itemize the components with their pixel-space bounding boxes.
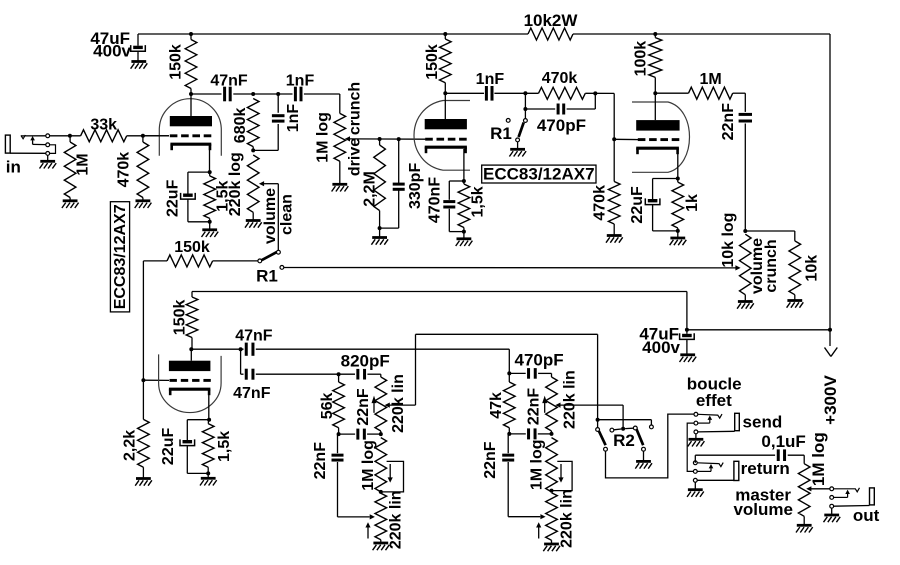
label R1 (upper) [490, 124, 512, 143]
node B+ rail / 150k V1b plate resistor [443, 32, 447, 36]
svg-text:470pF: 470pF [537, 116, 586, 135]
node B+ rail / 150k V1a plate resistor [189, 32, 193, 36]
resistor 470k (V3a grid leak) [592, 139, 620, 234]
node V2a plate [189, 347, 193, 351]
capacitor 0,1uF [761, 432, 805, 461]
node V3a cathode [676, 177, 680, 181]
svg-text:47nF: 47nF [235, 328, 273, 345]
svg-text:470pF: 470pF [515, 351, 564, 370]
tube V1b envelope [414, 101, 470, 171]
tube V1a grid [145, 134, 211, 137]
node right edge / 47uF filter feed [828, 328, 832, 332]
svg-text:return: return [741, 459, 790, 478]
wire in jack to 1M [50, 135, 81, 137]
resistor 150k (V1a plate) [167, 34, 197, 94]
node 47k bottom [507, 432, 511, 436]
wire stack1 wiper to R2 [416, 333, 598, 335]
label volume (crunch) [749, 238, 766, 294]
resistor 680k [232, 99, 259, 151]
label crunch (pot) [763, 239, 780, 292]
resistor 1,5k (V2a cathode) [202, 420, 233, 474]
wire send-return normalling [687, 423, 694, 471]
svg-text:56k: 56k [319, 392, 336, 419]
wiper master volume [806, 486, 830, 491]
svg-text:effet: effet [696, 391, 732, 410]
svg-text:send: send [743, 413, 783, 432]
node 470k input [141, 134, 145, 138]
label volume (clean) [262, 188, 279, 244]
svg-text:1k: 1k [684, 194, 701, 212]
resistor 33k [81, 117, 127, 142]
node 47k top [507, 371, 511, 375]
potentiometer 1M log (drive crunch) [315, 94, 346, 183]
resistor 1M (input) [64, 136, 91, 201]
node 2,2M top [378, 137, 382, 141]
switch R1 (upper) blade [519, 111, 526, 138]
wire 47uF node to +300V [687, 329, 830, 331]
potentiometer 1M log (master volume) [798, 432, 827, 524]
wire V3a plate to 1M [655, 92, 688, 94]
node B+ rail / 100k V3a plate resistor [653, 32, 657, 36]
svg-text:1,5k: 1,5k [470, 186, 487, 217]
capacitor 22uF (V2a cathode) [160, 428, 208, 474]
resistor 1,5k (V1a cathode) [204, 172, 232, 222]
svg-text:22nF: 22nF [526, 388, 543, 426]
label R1 (lower) [256, 267, 278, 286]
tube V1a plate [170, 94, 212, 126]
switch R2 blade left [599, 431, 606, 445]
svg-text:10k2W: 10k2W [524, 11, 579, 30]
capacitor 47uF 400v (input filter) [90, 29, 145, 61]
ground (stack2 bass) [543, 544, 560, 551]
wire B+ feed drop [686, 292, 688, 330]
svg-text:150k: 150k [424, 44, 441, 80]
svg-text:22nF: 22nF [482, 441, 499, 479]
node V1b plate [443, 91, 447, 95]
svg-text:drive: drive [347, 138, 364, 176]
svg-text:1nF: 1nF [476, 71, 505, 88]
svg-text:1M: 1M [75, 153, 92, 175]
tube V3a cathode [636, 148, 679, 178]
capacitor 1nF (V1b coupling) [476, 71, 505, 100]
wire bottom 47nF to stack1 [256, 373, 339, 375]
label drive [347, 138, 364, 176]
resistor 150k (switch feed) [167, 239, 213, 267]
resistor 2,2M [362, 139, 386, 228]
tube V3a plate [636, 93, 679, 130]
jack return plug body [697, 461, 739, 480]
label +300V [821, 375, 840, 425]
jack out plug body [834, 488, 875, 506]
node V3a grid [612, 137, 616, 141]
node R2 center feed [621, 427, 625, 431]
ground (2,2k) [135, 479, 152, 486]
capacitor 22nF (stack2 mid) [526, 388, 543, 440]
ground (volume clean) [245, 221, 262, 228]
label volume (master) [733, 500, 793, 519]
svg-text:220k lin: 220k lin [390, 374, 407, 433]
potentiometer 220k lin (stack1 bass) [375, 490, 405, 549]
resistor 470k (input) [115, 136, 148, 201]
potentiometer 10k log (volume crunch) [720, 213, 751, 301]
svg-text:150k: 150k [171, 300, 188, 336]
wire R2 upper link [598, 420, 652, 425]
wire V1b cathode to 470nF [449, 181, 464, 200]
wire stack2 mid row [509, 433, 551, 435]
wire R2 output to send [606, 414, 694, 478]
tube V3a envelope [632, 102, 690, 172]
label ECC83/12AX7 (left box) [110, 202, 129, 312]
capacitor 47nF (stack1 feed) [233, 349, 271, 402]
potentiometer 220k log (volume clean) [227, 152, 259, 219]
tube V1b cathode [425, 147, 467, 181]
ground (R2) [635, 451, 652, 468]
resistor 1k (V3a cathode) [672, 179, 701, 231]
resistor 150k (V2a plate) [171, 292, 198, 350]
svg-text:820pF: 820pF [341, 352, 390, 371]
svg-text:470nF: 470nF [427, 177, 444, 223]
tube V2a plate [169, 349, 211, 371]
node V1b cathode [462, 179, 466, 183]
node V1a plate [189, 92, 193, 96]
capacitor 470pF (bypass) [525, 93, 595, 135]
wire crunch pot to 10k [745, 230, 795, 232]
wiper tie arrow stack1 treble [372, 396, 377, 413]
jack send contacts [694, 412, 698, 433]
capacitor 47nF (stack2 feed) [235, 328, 273, 356]
node V1a cathode bottom [208, 220, 212, 224]
ground (10k divider) [787, 301, 804, 308]
node V1a cathode [208, 170, 212, 174]
svg-text:330pF: 330pF [407, 163, 424, 209]
jack out tip spring [834, 488, 860, 498]
svg-text:220k lin: 220k lin [558, 489, 575, 548]
svg-text:ECC83/12AX7: ECC83/12AX7 [483, 165, 595, 184]
wiper volume clean [259, 181, 278, 250]
tube V1b grid [425, 138, 467, 141]
capacitor 22nF (stack2 bass) [482, 434, 540, 517]
ground (V1b cathode) [456, 232, 473, 246]
switch R2 blade right [637, 429, 644, 445]
node volume crunch top [743, 229, 747, 233]
ground (send jack) [688, 434, 705, 447]
jack send tip spring [698, 414, 722, 423]
ground (master volume) [796, 525, 813, 532]
svg-text:in: in [6, 158, 21, 177]
jack in ring-sleeve tie [50, 145, 56, 154]
svg-text:22uF: 22uF [160, 428, 177, 466]
ground (out jack) [824, 508, 841, 522]
wire stack1 mid row [339, 433, 381, 435]
node V1b cathode bottom [462, 230, 466, 234]
wire B+ top rail left segment [138, 33, 528, 35]
capacitor 22nF (stack1 mid) [355, 388, 372, 439]
wiper tie arrow stack1 bass [365, 522, 370, 538]
label crunch [347, 82, 364, 135]
node 1nF bypass top [276, 92, 280, 96]
resistor 150k (V1b plate) [424, 34, 451, 93]
label R2 [613, 431, 635, 450]
wire top 47nF to stack2 [256, 349, 509, 373]
node 470k right [593, 91, 597, 95]
svg-text:400v: 400v [93, 42, 131, 61]
node 470k left [523, 91, 527, 95]
jack in tip spring [21, 135, 46, 145]
tube V1b plate [425, 93, 467, 129]
potentiometer 220k lin (stack1 treble) [375, 374, 407, 434]
svg-text:1,5k: 1,5k [216, 431, 233, 462]
capacitor 22uF (V1a cathode) [165, 179, 210, 221]
capacitor 22uF (V3a cathode) [629, 186, 678, 231]
node 2,2M bottom [378, 226, 382, 230]
label clean [279, 194, 296, 235]
wire 470k right [585, 92, 614, 94]
capacitor 1nF (clean bright) [286, 73, 315, 102]
ground (2,2M) [371, 228, 388, 245]
wiper 220k lin stack1 [385, 334, 416, 407]
svg-text:1nF: 1nF [285, 104, 302, 133]
resistor 2,2k (V2a grid leak) [122, 380, 150, 477]
tube V2a cathode [169, 389, 211, 420]
potentiometer 220k lin (stack2 treble) [546, 370, 579, 434]
node 47nF split [239, 347, 243, 351]
svg-text:volume: volume [733, 500, 793, 519]
ground (volume crunch) [737, 302, 754, 309]
svg-text:10k: 10k [804, 255, 821, 282]
wire R2 center stubs [614, 428, 633, 430]
node V3a plate [653, 91, 657, 95]
wire V2a grid lead [143, 379, 169, 381]
resistor 1M (V3a output) [689, 71, 733, 99]
svg-text:470k: 470k [592, 185, 609, 221]
node 56k top [337, 372, 341, 376]
jack in (plug body) [5, 135, 45, 153]
svg-text:out: out [853, 506, 880, 525]
node 330pF top [397, 137, 401, 141]
svg-text:1M log: 1M log [360, 440, 377, 491]
wire V1b plate to 1nF [445, 92, 484, 94]
svg-text:47nF: 47nF [233, 385, 271, 402]
wire V1a plate row [191, 93, 340, 95]
svg-text:47nF: 47nF [210, 73, 248, 90]
svg-text:clean: clean [279, 194, 296, 235]
svg-text:1nF: 1nF [286, 73, 315, 90]
svg-text:680k: 680k [232, 108, 249, 144]
capacitor 47nF (V1a coupling) [210, 73, 248, 102]
svg-text:47k: 47k [488, 392, 505, 419]
ground (V2a cathode) [200, 473, 217, 485]
wiper 220k lin stack2 bass [540, 514, 545, 519]
wire stack1 net drop to R2 [597, 334, 599, 419]
switch R1 (lower) blade [262, 252, 277, 260]
wire V3a cathode to 22uF [653, 179, 678, 200]
node V2a grid [141, 378, 145, 382]
label boucle [687, 375, 742, 394]
svg-text:22nF: 22nF [355, 388, 372, 426]
label return [741, 459, 790, 478]
svg-text:R1: R1 [256, 267, 278, 286]
capacitor 330pF [380, 139, 424, 228]
wire B+ top rail right segment [573, 33, 830, 35]
svg-text:1M log: 1M log [528, 439, 545, 490]
label in [6, 158, 21, 177]
label effet [696, 391, 732, 410]
node input 1M [68, 134, 72, 138]
svg-text:22nF: 22nF [312, 442, 329, 480]
resistor 10k (crunch divider) [789, 231, 821, 300]
ground (stack1 bass) [373, 543, 390, 550]
svg-text:R1: R1 [490, 124, 512, 143]
wire 150k to R1 [213, 260, 258, 262]
wiper 1M log stack2 [553, 461, 572, 490]
ground (V1a cathode) [202, 222, 219, 237]
ground (V3a cathode) [670, 231, 687, 245]
svg-text:220k lin: 220k lin [388, 490, 405, 549]
jack return contacts [693, 461, 697, 482]
svg-text:22nF: 22nF [720, 103, 737, 141]
resistor 100k (V3a plate) [633, 34, 662, 93]
wire V1a cathode to 22uF [188, 172, 210, 193]
wire V2a cathode to 22uF [187, 420, 209, 440]
svg-text:220k log: 220k log [227, 152, 244, 216]
ground (in jack) [40, 155, 57, 168]
wiper tie arrow stack2 bass [536, 522, 541, 538]
tube V3a grid [638, 138, 680, 141]
svg-text:470k: 470k [542, 70, 578, 87]
capacitor 47uF 400v (second filter) [639, 324, 694, 357]
node stack2 bass top [550, 489, 554, 493]
switch R1 (lower) contacts [258, 250, 284, 269]
wire +300V right edge vertical [829, 34, 831, 346]
svg-text:crunch: crunch [763, 239, 780, 292]
wire return to 0,1uF [695, 455, 775, 463]
ground (1M input) [62, 201, 79, 208]
switch R1 (upper) contacts [506, 119, 527, 142]
svg-text:33k: 33k [90, 117, 117, 134]
svg-text:1M log: 1M log [315, 112, 332, 163]
tube V1a cathode [170, 144, 211, 172]
wiper 220k lin stack2 [555, 403, 623, 428]
wire 33k to grid node [127, 135, 169, 137]
ground (return jack) [687, 482, 704, 497]
label master [735, 486, 791, 505]
svg-text:22uF: 22uF [165, 179, 182, 217]
svg-text:400v: 400v [642, 338, 680, 357]
svg-text:150k: 150k [174, 239, 210, 256]
label send [743, 413, 783, 432]
node volume clean top [251, 148, 255, 152]
jack send plug body [698, 413, 739, 432]
label out [853, 506, 880, 525]
tube V1a envelope [159, 99, 221, 156]
svg-text:2,2M: 2,2M [362, 171, 379, 207]
node R2 feed [596, 418, 600, 422]
svg-text:1M log: 1M log [809, 432, 828, 486]
jack return tip spring [697, 463, 723, 472]
wiper tie arrow stack2 treble [542, 396, 547, 413]
svg-text:470k: 470k [115, 152, 132, 188]
svg-text:1M: 1M [699, 71, 721, 88]
resistor 56k [319, 374, 344, 434]
node 680k top [251, 92, 255, 96]
node stack2 mid [550, 432, 554, 436]
potentiometer 1M log (stack1) [360, 438, 386, 492]
capacitor 1nF (volume bypass) [253, 94, 302, 150]
wiper drive crunch [345, 136, 426, 141]
wire V2a plate row [191, 348, 243, 350]
capacitor 470nF (V1b cathode) [427, 177, 464, 232]
svg-text:ECC83/12AX7: ECC83/12AX7 [112, 204, 129, 309]
wiper 220k lin stack1 bass [370, 514, 375, 519]
node 47uF lower [685, 328, 689, 332]
tube V2a grid [170, 379, 211, 382]
svg-text:2,2k: 2,2k [122, 430, 139, 461]
ground (V3a grid leak) [606, 236, 623, 243]
ground (470k input) [135, 201, 152, 208]
svg-text:22uF: 22uF [629, 186, 646, 224]
label ECC83/12AX7 (top box) [482, 165, 596, 184]
potentiometer 220k lin (stack2 bass) [546, 489, 576, 548]
svg-text:0,1uF: 0,1uF [761, 432, 805, 451]
svg-text:10k log: 10k log [720, 213, 737, 268]
wire switch to V2a grid [142, 261, 144, 380]
resistor 47k [488, 373, 515, 434]
node stack1 bass top [379, 490, 383, 494]
node V2a cathode [207, 418, 211, 422]
wire V2a B+ feed [192, 291, 687, 293]
capacitor 22nF (V3a coupling) [720, 93, 752, 231]
wire 1nF to 470k [494, 92, 538, 94]
svg-text:100k: 100k [633, 41, 650, 77]
resistor 10k2W [524, 11, 579, 40]
wiper 1M log stack1 [382, 461, 404, 492]
capacitor 470pF (stack2) [509, 351, 563, 379]
wire 470k to V3a grid [614, 93, 639, 139]
svg-text:+300V: +300V [821, 375, 840, 425]
svg-text:R2: R2 [613, 431, 635, 450]
node 56k bottom [337, 432, 341, 436]
node R1 upper tap [523, 107, 527, 111]
wire channel switch feed [143, 260, 167, 262]
node stack1 mid [379, 432, 383, 436]
svg-text:220k lin: 220k lin [562, 370, 579, 429]
ground (R1 upper) [509, 142, 526, 157]
wire R2 left contact stub [597, 420, 599, 428]
jack out contacts [830, 487, 834, 508]
node V3a cathode bottom [676, 229, 680, 233]
ground (47uF input filter) [131, 62, 148, 69]
resistor 470k (interstage) [539, 70, 586, 99]
resistor 1,5k (V1b cathode) [458, 181, 486, 232]
potentiometer 1M log (stack2) [528, 438, 557, 492]
capacitor 820pF [339, 352, 390, 380]
jack in contacts [46, 134, 50, 155]
ground (47uF second filter) [680, 355, 697, 362]
svg-text:volume: volume [262, 188, 279, 244]
switch R2 contacts [596, 425, 654, 451]
capacitor 22nF (stack1 bass) [312, 434, 370, 517]
tube V2a envelope [159, 354, 222, 412]
wire R1 to volume crunch wiper [284, 267, 736, 269]
wire 0,1uF to master pot [788, 455, 805, 464]
ground (drive crunch) [332, 184, 349, 191]
svg-text:crunch: crunch [347, 82, 364, 135]
connector +300V arrowhead [825, 348, 838, 357]
wiper volume crunch [735, 265, 740, 270]
node V2a cathode bottom [206, 471, 210, 475]
svg-text:150k: 150k [167, 44, 184, 80]
